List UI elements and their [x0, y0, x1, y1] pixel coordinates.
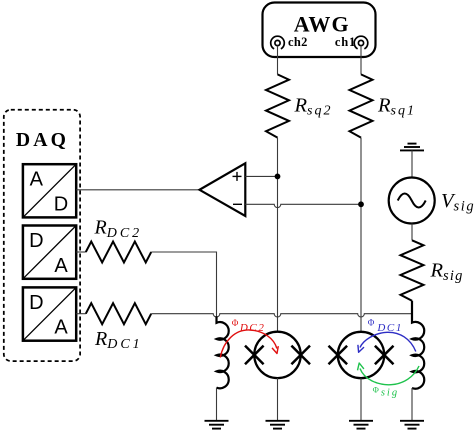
svg-text:DAQ: DAQ [16, 129, 69, 151]
wire ch2 line down to left SQUID [277, 138, 279, 332]
op-amp U1 [200, 163, 246, 216]
wire ch2 to Rsq2 [277, 46, 279, 75]
inductor L_sig/DC1 (right coil) [412, 301, 424, 389]
svg-text:ch2: ch2 [288, 35, 308, 49]
flux arrow Phi_DC1 (blue) [358, 332, 416, 352]
voltage source Vsig [389, 178, 435, 224]
resistor RDC2 [86, 242, 151, 263]
svg-text:ch1: ch1 [335, 35, 356, 49]
resistor RDC1 [86, 303, 151, 324]
ground (under left SQUID) [266, 421, 290, 429]
inductor L_DC2 (left coil) [217, 316, 229, 388]
resistor Rsq1 [350, 74, 373, 137]
flux arrow Phi_DC2 (red) [220, 330, 278, 358]
flux arrow Phi_sig (green) [358, 363, 420, 385]
SQUID 1 (right) [329, 332, 394, 378]
ground (top, above Vsig) [400, 144, 424, 178]
wire RDC2 to left coil [151, 252, 216, 318]
svg-text:A: A [54, 317, 68, 339]
wire op-amp - input to ch1 node (with hop) [245, 204, 361, 207]
wire ADC to op-amp output [76, 189, 199, 191]
wire ch1 to Rsq1 [360, 46, 362, 75]
wire DAC1 to RDC1 [76, 313, 86, 315]
svg-text:D: D [54, 193, 68, 215]
wire left coil to ground [216, 388, 218, 420]
svg-text:AWG: AWG [294, 11, 350, 36]
resistor Rsq2 [266, 74, 289, 137]
DAC block D/A (lower) [23, 287, 76, 340]
node junction dot on ch2 line [275, 174, 281, 180]
DAC block D/A (upper) [23, 226, 76, 279]
wire right coil to ground [411, 388, 413, 420]
svg-text:D: D [29, 230, 43, 252]
SQUID 2 (left) [245, 332, 310, 378]
svg-text:D: D [29, 292, 43, 314]
svg-text:A: A [30, 169, 44, 191]
ADC block A/D [23, 164, 76, 217]
ground (under right SQUID) [349, 421, 373, 429]
wire RDC1 to right coil (with hops) [151, 314, 412, 320]
wire Rsig down to DC1 node [411, 301, 413, 314]
svg-text:A: A [54, 255, 68, 277]
AWG instrument box [263, 3, 376, 58]
wire DAC2 to RDC2 [76, 251, 86, 253]
wire ch1 line down to right SQUID [360, 138, 362, 332]
ground (under right coil) [400, 421, 424, 429]
wire op-amp + input to ch2 node [245, 175, 277, 177]
resistor Rsig [401, 240, 424, 300]
wire left SQUID to ground [277, 378, 279, 420]
ground (under left coil) [205, 421, 229, 429]
wire Vsig to Rsig [411, 224, 413, 241]
terminal ch2 [271, 35, 308, 49]
terminal ch1 [335, 35, 368, 49]
node junction dot on ch1 line [358, 201, 364, 207]
wire right SQUID to ground [360, 378, 362, 420]
DAQ dashed enclosure [4, 110, 80, 361]
